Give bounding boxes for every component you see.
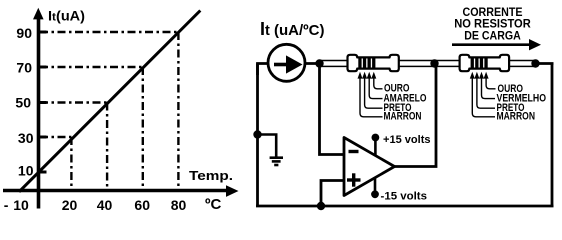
svg-text:90: 90 [16, 25, 32, 41]
wire: output feedback [395, 64, 437, 167]
svg-text:20: 20 [62, 197, 78, 212]
gridline 30 [40, 136, 71, 138]
svg-text:MARRON: MARRON [497, 111, 536, 123]
resistor R2 [436, 55, 534, 71]
wire: inverting input [320, 64, 345, 155]
wire: left vertical [256, 64, 259, 207]
op-amp U1 [344, 138, 395, 196]
x-axis [3, 185, 239, 197]
svg-text:40: 40 [97, 197, 113, 212]
wire: top right segment [535, 62, 554, 65]
resistor R1 [321, 55, 432, 71]
svg-text:80: 80 [171, 197, 187, 212]
node A [315, 59, 323, 67]
R1 band pointer OURO [371, 72, 382, 89]
-15 volts pin [371, 178, 427, 203]
wire: non-inverting input [321, 181, 344, 207]
svg-text:It(uA): It(uA) [48, 9, 85, 24]
svg-text:70: 70 [16, 60, 32, 76]
y tick 30 [40, 136, 47, 139]
vline 40 [106, 103, 108, 190]
R1 band pointer AMARELO [367, 72, 383, 99]
R2 band pointer VERMELHO [479, 72, 495, 99]
svg-text:60: 60 [134, 197, 150, 212]
ground [258, 135, 284, 166]
svg-text:Temp.: Temp. [189, 168, 233, 183]
vline 60 [142, 67, 144, 190]
svg-text:-15 volts: -15 volts [381, 191, 428, 203]
node B [430, 59, 438, 67]
+15 volts pin [372, 134, 431, 156]
svg-text:ºC: ºC [205, 196, 221, 212]
wire: source to node A [305, 62, 322, 65]
node: non-inverting to bottom [317, 202, 325, 210]
node: ground junction [253, 130, 261, 138]
R2 band pointer PRETO [474, 72, 495, 108]
node C [531, 59, 539, 67]
svg-text:30: 30 [18, 130, 34, 146]
y tick 10 [40, 171, 47, 174]
svg-text:10: 10 [18, 163, 34, 179]
svg-text:50: 50 [15, 95, 31, 111]
y tick 50 [40, 101, 47, 104]
wire: bottom [256, 205, 554, 208]
svg-text:MARRON: MARRON [384, 111, 422, 123]
y tick 90 [40, 31, 47, 34]
vline 20 [70, 137, 72, 190]
gridline 70 [40, 66, 143, 68]
gridline 90 [40, 31, 178, 33]
wire: right vertical [551, 64, 554, 207]
svg-text:-10: -10 [4, 197, 29, 212]
wire: source left lead [258, 64, 269, 76]
gridline 50 [40, 101, 107, 103]
current source It [268, 44, 305, 81]
R2 band pointer OURO [484, 72, 496, 89]
svg-text:DE CARGA: DE CARGA [464, 28, 521, 42]
svg-text:It (uA/ºC): It (uA/ºC) [260, 19, 325, 39]
R2 band pointer MARRON [470, 72, 495, 117]
R1 band pointer MARRON [358, 72, 383, 117]
y tick 70 [40, 66, 47, 69]
R1 band pointer PRETO [362, 72, 382, 108]
svg-text:+15 volts: +15 volts [383, 134, 431, 146]
vline 80 [177, 32, 179, 190]
y-axis [33, 8, 44, 209]
transfer line [19, 11, 200, 192]
label CORRENTE NO RESISTOR DE CARGA [452, 5, 541, 50]
